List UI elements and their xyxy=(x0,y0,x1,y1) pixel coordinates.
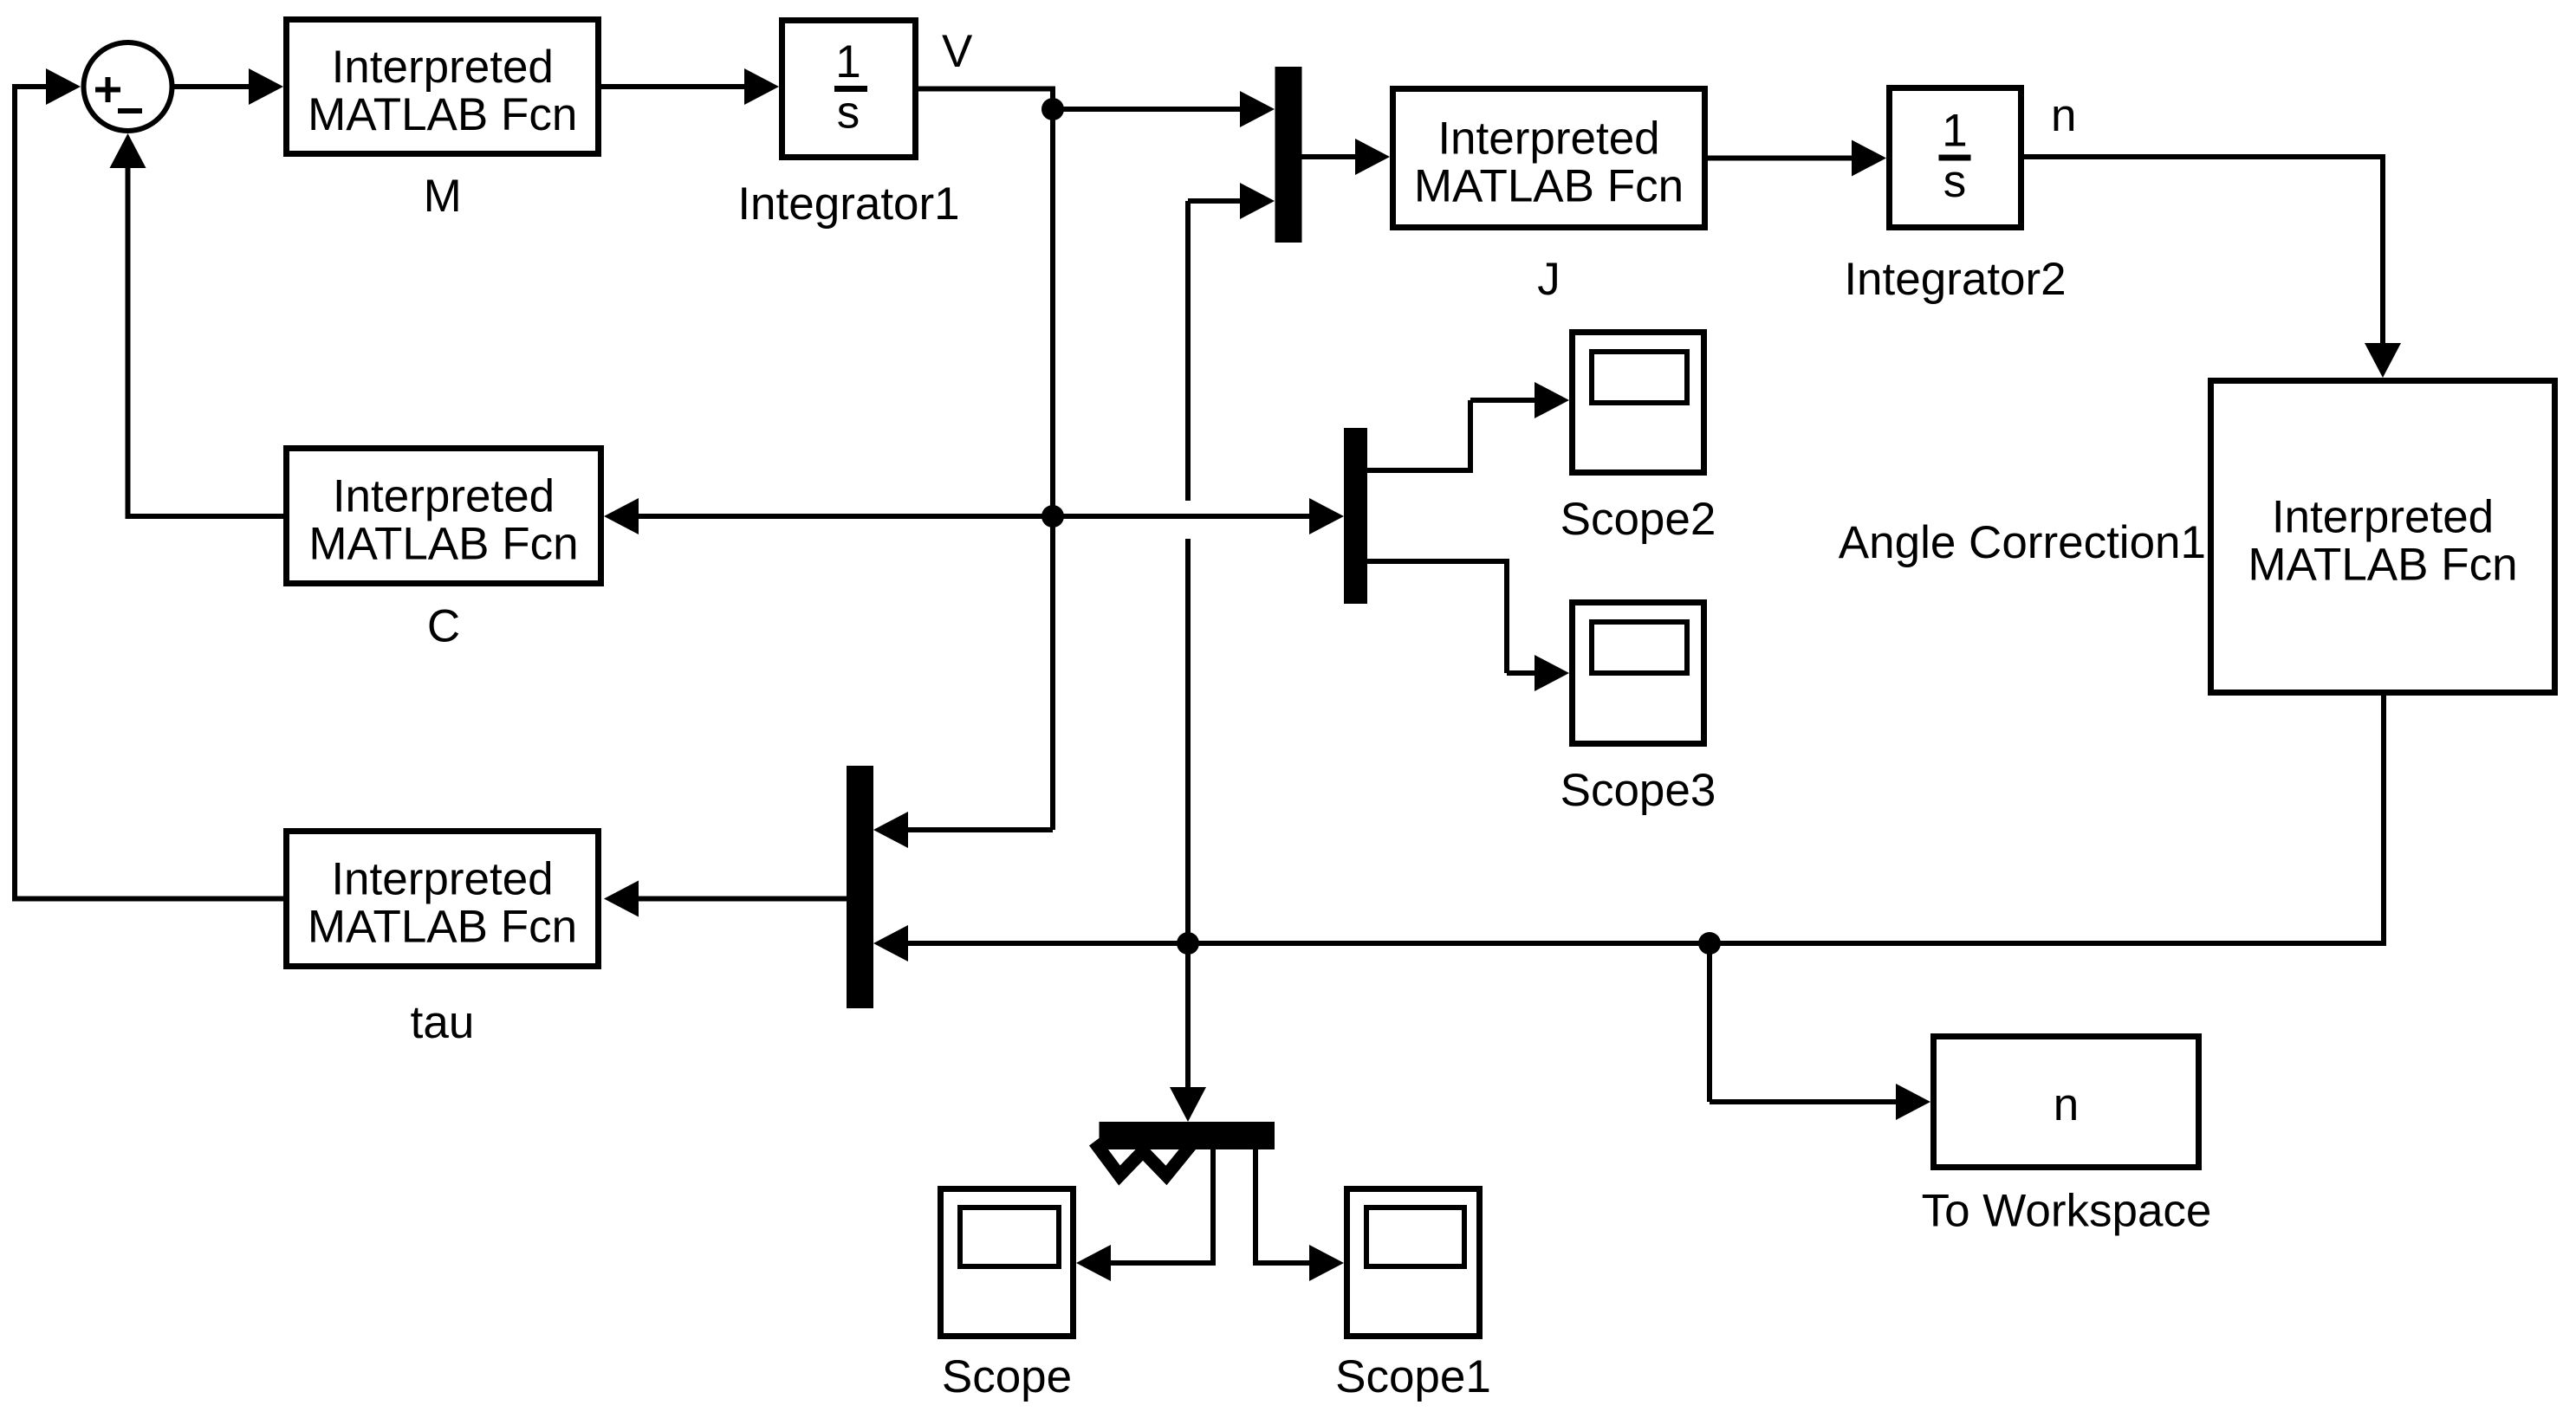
svg-text:Interpreted: Interpreted xyxy=(331,854,553,905)
node: V branch to mux1 xyxy=(1041,91,1275,127)
svg-text:J: J xyxy=(1537,254,1561,305)
svg-text:Scope: Scope xyxy=(942,1351,1072,1402)
svg-text:tau: tau xyxy=(411,997,475,1048)
wire mux3 to tau xyxy=(604,881,847,917)
block Integrator1 (1/s) xyxy=(782,21,916,158)
svg-text:Integrator1: Integrator1 xyxy=(737,178,959,230)
wire demux4 to Scope xyxy=(1076,1149,1216,1281)
wire C output feedback to sum minus input xyxy=(110,133,284,519)
node: branch to To Workspace xyxy=(1698,932,1930,1120)
block Scope1 xyxy=(1347,1189,1480,1337)
wire J to Integrator2 xyxy=(1708,140,1886,177)
svg-text:Interpreted: Interpreted xyxy=(333,471,555,522)
wire M to Integrator1 xyxy=(601,68,779,105)
svg-text:Interpreted: Interpreted xyxy=(1437,113,1659,165)
wire sum to M xyxy=(172,68,283,105)
svg-text:MATLAB Fcn: MATLAB Fcn xyxy=(308,89,577,140)
node: V branch to C and demux2 xyxy=(604,498,1344,534)
svg-text:To Workspace: To Workspace xyxy=(1922,1186,2212,1237)
svg-text:C: C xyxy=(427,601,460,652)
block Scope xyxy=(941,1189,1074,1337)
svg-text:s: s xyxy=(837,87,860,139)
svg-text:n: n xyxy=(2051,90,2076,141)
wire mux1 to J xyxy=(1302,139,1391,175)
svg-text:s: s xyxy=(1943,156,1967,207)
wire V: Integrator1 output down to mux3 input 1 xyxy=(873,87,1053,849)
sum junction S1 xyxy=(84,42,172,131)
svg-text:Interpreted: Interpreted xyxy=(332,42,554,93)
block Scope3 xyxy=(1573,603,1704,744)
block M (Interpreted MATLAB Fcn) xyxy=(287,20,599,154)
svg-text:MATLAB Fcn: MATLAB Fcn xyxy=(308,902,577,953)
block Angle Correction1 (Interpreted MATLAB Fcn) xyxy=(2211,381,2555,693)
svg-text:n: n xyxy=(2054,1079,2079,1130)
wire demux2 to Scope2 xyxy=(1367,382,1569,473)
demux Demux4 (bottom, rotated) xyxy=(1094,1122,1275,1175)
mux Mux3 xyxy=(847,766,873,1008)
svg-text:1: 1 xyxy=(835,36,860,87)
svg-text:Scope1: Scope1 xyxy=(1335,1351,1491,1402)
svg-text:Scope3: Scope3 xyxy=(1561,765,1716,816)
svg-text:Interpreted: Interpreted xyxy=(2272,492,2494,543)
block tau (Interpreted MATLAB Fcn) xyxy=(287,832,599,967)
svg-text:V: V xyxy=(942,26,973,77)
svg-text:1: 1 xyxy=(1942,106,1967,157)
svg-text:Integrator2: Integrator2 xyxy=(1844,254,2066,305)
svg-text:MATLAB Fcn: MATLAB Fcn xyxy=(308,519,578,570)
wire Integrator2 to Angle Correction1 xyxy=(2024,154,2401,378)
wire demux4 to Scope1 xyxy=(1253,1149,1344,1281)
svg-text:MATLAB Fcn: MATLAB Fcn xyxy=(1414,161,1684,212)
svg-text:Scope2: Scope2 xyxy=(1561,494,1716,545)
wire tau output feedback to sum xyxy=(12,68,283,902)
mux Mux1 xyxy=(1275,67,1302,243)
block J (Interpreted MATLAB Fcn) xyxy=(1393,89,1705,228)
block Integrator2 (1/s) xyxy=(1890,88,2021,228)
block C (Interpreted MATLAB Fcn) xyxy=(287,449,601,584)
block Scope2 xyxy=(1573,333,1704,473)
node: branch up to mux1 input 2 and down to demux4 xyxy=(1170,183,1275,1122)
svg-text:M: M xyxy=(424,171,462,222)
svg-text:Angle Correction1: Angle Correction1 xyxy=(1839,517,2206,568)
block To Workspace (n) xyxy=(1934,1037,2199,1168)
wire demux2 to Scope3 xyxy=(1367,559,1569,691)
demux Demux2 (to scopes) xyxy=(1344,428,1367,604)
wire Angle Correction1 output bus xyxy=(873,696,2386,962)
svg-text:MATLAB Fcn: MATLAB Fcn xyxy=(2248,540,2517,591)
